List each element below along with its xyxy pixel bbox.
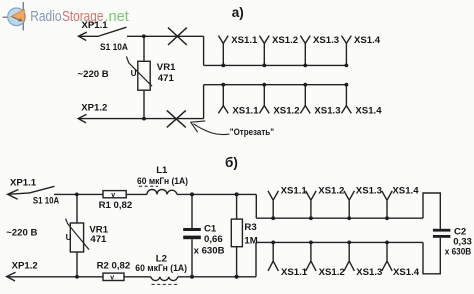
svg-text:.net: .net	[104, 9, 128, 25]
svg-text:L1: L1	[156, 165, 168, 176]
svg-text:U: U	[66, 233, 72, 242]
inductor L2	[135, 254, 187, 285]
svg-text:471: 471	[158, 73, 175, 84]
svg-text:х 630В: х 630В	[445, 247, 471, 258]
svg-text:R3: R3	[244, 222, 256, 233]
wire step up from bottom to rail 2 (circuit a)	[203, 85, 205, 119]
socket XS1.2 top (b)	[306, 185, 345, 218]
socket XS1.3 bottom (b)	[344, 242, 382, 277]
node XS1.2 top (a)	[262, 64, 266, 68]
wire top left (circuit b)	[54, 193, 103, 195]
svg-text:XS1.4: XS1.4	[392, 185, 419, 196]
inductor L1	[137, 165, 188, 195]
svg-text:XS1.3: XS1.3	[314, 106, 340, 117]
node XS1.3 bottom (b)	[347, 241, 351, 245]
socket XS1.3 top (b)	[344, 185, 382, 218]
socket XS1.2 bottom (b)	[306, 242, 345, 277]
X cut mark bottom (circuit a)	[167, 110, 186, 127]
svg-text:XS1.1: XS1.1	[232, 106, 259, 117]
node C1 bottom	[190, 275, 194, 279]
node XS1.4 bottom (b)	[385, 241, 389, 245]
socket XS1.1 bottom (b)	[268, 242, 308, 277]
svg-text:XS1.2: XS1.2	[272, 35, 298, 46]
logo RadioStorage.net	[3, 2, 129, 31]
svg-text:471: 471	[90, 234, 107, 245]
svg-text:XP1.1: XP1.1	[82, 20, 109, 31]
svg-text:R1 0,82: R1 0,82	[99, 200, 133, 211]
wire bottom left (circuit b)	[7, 276, 103, 278]
svg-text:а): а)	[232, 5, 244, 20]
socket XS1.1 bottom (a)	[218, 85, 259, 117]
svg-text:60 мкГн (1А): 60 мкГн (1А)	[137, 176, 188, 187]
svg-text:XS1.1: XS1.1	[281, 267, 308, 278]
varistor VR1 (circuit b)	[66, 194, 109, 276]
node top junction (circuit a)	[142, 34, 146, 38]
wire rail 2 (circuit a)	[204, 84, 347, 86]
svg-text:XS1.3: XS1.3	[313, 35, 339, 46]
node R3 top	[235, 192, 239, 196]
resistor R2	[97, 260, 131, 281]
socket XS1.1 top (a)	[218, 35, 258, 65]
X cut mark top (circuit a)	[168, 28, 187, 45]
plug XP1.2 (circuit b)	[7, 261, 38, 281]
svg-text:XS1.2: XS1.2	[318, 185, 344, 196]
switch S1 10A (circuit b)	[30, 186, 60, 206]
node XS1.2 top (b)	[309, 216, 313, 220]
capacitor C2	[433, 226, 472, 257]
varistor VR1 (circuit a)	[126, 36, 176, 118]
plug XP1.2 (circuit a)	[78, 102, 107, 123]
node XS1.3 bottom (a)	[303, 83, 307, 87]
wire step down from rail 2 to bottom (circuit b)	[255, 242, 257, 276]
node XS1.4 top (a)	[345, 64, 349, 68]
svg-text:R2 0,82: R2 0,82	[97, 260, 131, 271]
wire rail 2 (circuit b)	[256, 241, 423, 243]
svg-text:60 мкГн (1А): 60 мкГн (1А)	[135, 263, 187, 274]
plug XP1.1 (circuit a)	[79, 20, 109, 40]
socket XS1.2 bottom (a)	[259, 85, 299, 117]
socket XS1.3 top (a)	[300, 35, 339, 65]
node XS1.1 bottom (b)	[271, 241, 275, 245]
svg-text:х 630В: х 630В	[194, 246, 225, 257]
svg-text:XS1.4: XS1.4	[393, 267, 420, 278]
svg-text:U: U	[131, 69, 137, 78]
svg-text:C1: C1	[204, 223, 217, 234]
svg-text:XP1.1: XP1.1	[10, 178, 37, 189]
callout "Otrezat" (circuit a)	[191, 121, 274, 138]
wire top (circuit a)	[127, 35, 204, 37]
svg-text:XP1.2: XP1.2	[81, 102, 107, 113]
svg-text:б): б)	[225, 155, 238, 170]
socket XS1.1 top (b)	[268, 185, 307, 218]
wire R1 to L1	[126, 193, 147, 195]
resistor R3	[231, 194, 257, 276]
node XS1.3 top (b)	[347, 216, 351, 220]
svg-text:XS1.2: XS1.2	[273, 106, 299, 117]
wire jog to C2 top	[423, 193, 440, 229]
resistor R1	[99, 191, 133, 211]
node XS1.1 top (b)	[271, 216, 275, 220]
svg-text:XS1.1: XS1.1	[231, 35, 258, 46]
node XS1.4 bottom (a)	[345, 83, 349, 87]
svg-text:1М: 1М	[244, 236, 257, 247]
node R3 bottom	[235, 275, 239, 279]
node XS1.4 top (b)	[385, 216, 389, 220]
socket XS1.3 bottom (a)	[300, 85, 340, 117]
socket XS1.4 top (a)	[342, 35, 381, 65]
node varistor bottom (circuit b)	[75, 275, 79, 279]
node XS1.1 bottom (a)	[221, 83, 225, 87]
svg-text:XS1.3: XS1.3	[356, 185, 382, 196]
node XS1.2 bottom (a)	[262, 83, 266, 87]
wire step down to rail 1 (circuit b)	[255, 194, 257, 218]
wire R2 to L2	[124, 276, 151, 278]
wire L1 to step (circuit b)	[177, 193, 256, 195]
plug XP1.1 (circuit b)	[8, 178, 37, 200]
node XS1.2 bottom (b)	[309, 241, 313, 245]
socket XS1.4 bottom (a)	[342, 85, 383, 117]
wire bottom (circuit a)	[78, 118, 203, 120]
switch S1 10A (circuit a)	[99, 27, 128, 53]
node bottom junction (circuit a)	[142, 117, 146, 121]
node XS1.3 top (a)	[303, 64, 307, 68]
node C1 top	[190, 192, 194, 196]
svg-text:v: v	[110, 275, 114, 282]
svg-text:XS1.3: XS1.3	[356, 267, 382, 278]
wire rail 1 (circuit a)	[204, 64, 347, 66]
wire step down to rail 1 (circuit a)	[203, 36, 205, 65]
node varistor top (circuit b)	[75, 193, 79, 197]
wire bottom right (circuit b)	[178, 276, 256, 278]
svg-text:v: v	[111, 192, 115, 199]
svg-text:~220 В: ~220 В	[78, 69, 109, 80]
svg-text:0,66: 0,66	[204, 234, 223, 245]
svg-text:"Отрезать": "Отрезать"	[230, 127, 274, 138]
socket XS1.4 bottom (b)	[382, 242, 420, 277]
socket XS1.4 top (b)	[382, 185, 419, 218]
capacitor C1	[183, 194, 224, 276]
svg-text:XS1.2: XS1.2	[319, 267, 345, 278]
svg-text:XS1.4: XS1.4	[354, 35, 381, 46]
wire rail 1 (circuit b)	[256, 217, 423, 219]
svg-text:Radio: Radio	[30, 9, 61, 25]
socket XS1.2 top (a)	[259, 35, 298, 65]
wire jog from C2 bottom	[423, 238, 440, 274]
svg-text:XS1.1: XS1.1	[281, 185, 308, 196]
svg-text:~220 В: ~220 В	[6, 228, 37, 239]
node XS1.1 top (a)	[221, 64, 225, 68]
svg-text:XP1.2: XP1.2	[12, 261, 38, 272]
svg-text:XS1.4: XS1.4	[355, 106, 382, 117]
svg-text:VR1: VR1	[157, 62, 176, 73]
svg-text:S1 10A: S1 10A	[33, 196, 59, 207]
svg-text:S1 10A: S1 10A	[100, 42, 128, 53]
